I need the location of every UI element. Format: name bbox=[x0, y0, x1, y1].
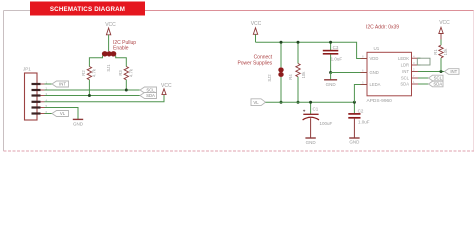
wire SJ1 left to R2 bbox=[89, 56, 102, 67]
wire LEDA route bbox=[354, 85, 367, 103]
junction R2/SDA bbox=[88, 94, 91, 97]
wire R3 to SCL bbox=[125, 80, 127, 90]
svg-text:INT: INT bbox=[450, 69, 457, 74]
svg-text:SDA: SDA bbox=[146, 93, 155, 98]
power VCC (header) bbox=[161, 83, 172, 95]
svg-text:SCHEMATICS DIAGRAM: SCHEMATICS DIAGRAM bbox=[50, 6, 125, 13]
svg-text:1.0uF: 1.0uF bbox=[358, 120, 370, 125]
svg-text:C1: C1 bbox=[313, 107, 319, 112]
node VL flag (center) bbox=[251, 99, 266, 106]
capacitor C1 bbox=[303, 102, 333, 138]
junction C1 top bbox=[309, 101, 312, 104]
svg-text:GND: GND bbox=[73, 122, 84, 127]
wire VL rail bbox=[266, 101, 355, 103]
wire SDA to flag bbox=[418, 83, 429, 85]
svg-text:SCL: SCL bbox=[146, 88, 155, 93]
resistor R2 bbox=[81, 67, 97, 80]
svg-text:R3: R3 bbox=[118, 70, 123, 76]
wire JP1 to GND bbox=[45, 108, 79, 120]
node SDA flag bbox=[140, 93, 157, 99]
capacitor C2 bbox=[348, 102, 369, 138]
junction C3 top bbox=[329, 41, 332, 44]
svg-text:VCC: VCC bbox=[251, 21, 262, 27]
svg-text:JP1: JP1 bbox=[23, 67, 31, 72]
power VCC (center) bbox=[251, 21, 262, 42]
junction C2 top bbox=[353, 101, 356, 104]
svg-text:APDS-9960: APDS-9960 bbox=[367, 98, 393, 104]
svg-text:R4: R4 bbox=[288, 74, 293, 80]
svg-text:VCC: VCC bbox=[105, 22, 116, 28]
svg-text:SJ1: SJ1 bbox=[106, 64, 111, 72]
op-amp U1 APDS-9960 bbox=[361, 46, 419, 104]
svg-text:SCL: SCL bbox=[434, 76, 443, 81]
ground (C3) bbox=[324, 73, 337, 88]
ground (C2) bbox=[349, 138, 360, 145]
svg-text:C2: C2 bbox=[358, 108, 364, 113]
svg-text:4.7k: 4.7k bbox=[92, 68, 97, 77]
title banner bbox=[30, 2, 145, 16]
wire JP1 VCC rail bbox=[45, 95, 165, 102]
power VCC (pullups) bbox=[105, 22, 116, 51]
wire SCL to flag bbox=[418, 77, 429, 79]
svg-text:INT: INT bbox=[402, 69, 409, 74]
svg-text:GND: GND bbox=[326, 82, 337, 87]
border frame bbox=[4, 11, 474, 152]
node INT flag bbox=[52, 81, 69, 87]
wire R2 to SDA bbox=[88, 80, 90, 96]
svg-text:10k: 10k bbox=[301, 71, 306, 79]
wire INT to flag bbox=[418, 71, 445, 73]
node SDA flag (right) bbox=[429, 81, 444, 87]
svg-text:LEDA: LEDA bbox=[370, 82, 381, 87]
connector JP1 bbox=[23, 67, 48, 120]
solder jumper SJ2 bbox=[267, 42, 284, 102]
svg-text:GND: GND bbox=[370, 70, 379, 75]
svg-text:GND: GND bbox=[349, 140, 360, 145]
resistor R4 bbox=[288, 42, 306, 102]
svg-text:VL: VL bbox=[60, 111, 66, 116]
svg-text:C3: C3 bbox=[333, 45, 339, 50]
svg-text:GND: GND bbox=[306, 140, 317, 145]
svg-text:R2: R2 bbox=[81, 70, 86, 76]
junction SJ2 bottom bbox=[280, 101, 283, 104]
jumper LEDK-LDR bbox=[417, 58, 430, 65]
label Connect Power Supplies bbox=[237, 55, 272, 67]
svg-text:U1: U1 bbox=[374, 46, 380, 51]
svg-text:10k: 10k bbox=[443, 48, 448, 56]
wire JP1 pin6 to VL flag bbox=[45, 113, 53, 115]
wire JP1 pin1 to INT flag bbox=[45, 83, 53, 85]
label I2C Pullup Enable bbox=[113, 40, 136, 52]
svg-text:100uF: 100uF bbox=[320, 121, 333, 126]
wire SCL from JP1 bbox=[45, 89, 141, 91]
wire SJ1 right to R3 bbox=[116, 56, 127, 67]
svg-text:4.7k: 4.7k bbox=[128, 68, 133, 77]
svg-text:Enable: Enable bbox=[113, 45, 129, 51]
node INT flag (right) bbox=[445, 69, 460, 75]
svg-text:+: + bbox=[303, 109, 306, 114]
svg-text:SJ2: SJ2 bbox=[267, 74, 272, 82]
resistor R3 bbox=[118, 67, 133, 80]
junction SJ2 top bbox=[280, 41, 283, 44]
junction R4 top bbox=[297, 41, 300, 44]
svg-text:SDA: SDA bbox=[433, 82, 442, 87]
junction R3/SCL bbox=[125, 89, 128, 92]
svg-text:I2C Addr: 0x39: I2C Addr: 0x39 bbox=[366, 24, 399, 30]
svg-text:SCL: SCL bbox=[401, 76, 410, 81]
wire SDA from JP1 bbox=[45, 95, 141, 97]
svg-text:SDA: SDA bbox=[400, 82, 409, 87]
junction C3 bottom bbox=[329, 71, 332, 74]
ground (C1) bbox=[305, 138, 316, 145]
ground (header) bbox=[73, 119, 84, 126]
svg-text:R1: R1 bbox=[433, 49, 438, 55]
svg-text:Power Supplies: Power Supplies bbox=[237, 60, 272, 66]
svg-text:VCC: VCC bbox=[161, 83, 172, 89]
svg-text:LEDK: LEDK bbox=[398, 56, 409, 61]
svg-text:VDD: VDD bbox=[370, 56, 379, 61]
svg-text:VL: VL bbox=[253, 100, 259, 105]
svg-text:LDR: LDR bbox=[401, 63, 409, 68]
junction R4 bottom bbox=[297, 101, 300, 104]
junction R1/INT bbox=[440, 70, 443, 73]
svg-text:INT: INT bbox=[59, 82, 66, 87]
svg-text:1.0uF: 1.0uF bbox=[331, 57, 343, 62]
power VCC (right) bbox=[439, 20, 450, 39]
pin numbers U1 bbox=[362, 54, 415, 84]
node SCL flag (right) bbox=[429, 75, 444, 81]
node SCL flag bbox=[140, 87, 157, 93]
resistor R1 bbox=[433, 40, 448, 72]
node VL flag bbox=[52, 111, 69, 117]
capacitor C3 bbox=[323, 42, 343, 72]
wire VCC top rail bbox=[256, 42, 368, 58]
solder jumper SJ1 bbox=[102, 51, 116, 72]
wire C3 to U1 GND bbox=[331, 72, 367, 74]
svg-text:VCC: VCC bbox=[439, 20, 450, 26]
